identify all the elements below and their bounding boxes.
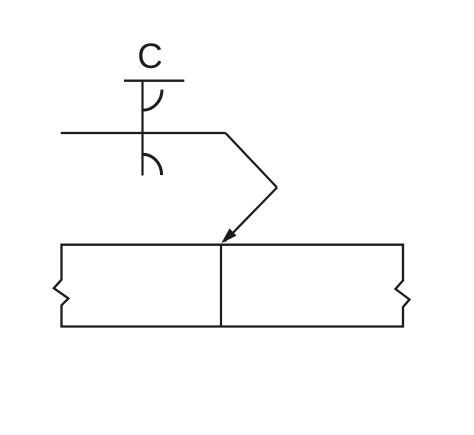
weld symbol vertical line xyxy=(141,81,143,176)
reference line xyxy=(61,132,226,134)
leader bend segment xyxy=(226,133,278,188)
flush contour symbol bar xyxy=(124,79,184,81)
svg-text:C: C xyxy=(137,37,162,76)
leader arrow segment xyxy=(225,188,278,242)
joint seam line xyxy=(220,245,222,327)
arrowhead xyxy=(221,228,236,243)
upper J-groove arc (other side) xyxy=(143,90,162,111)
workpiece plate outline with break lines xyxy=(54,245,410,327)
lower J-groove arc (arrow side) xyxy=(143,154,162,175)
